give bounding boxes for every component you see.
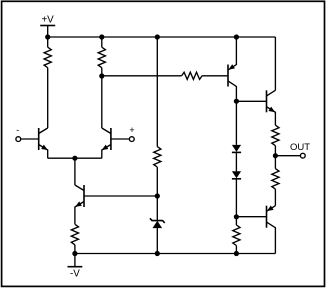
node Q4 collector [234,99,239,104]
wire node to R5 [102,75,182,77]
diode D1 [232,145,241,153]
resistor R8 [272,169,279,190]
wire OUT node to terminal [275,155,300,157]
wire OUT node to R8 [274,156,276,169]
node bottom rail R7 [234,251,239,256]
transistor Q1 [39,128,48,158]
node top rail at Q4 emitter [234,34,239,39]
node emitter rail [72,156,77,161]
wire R6 to OUT node [274,146,276,156]
-V terminal [68,254,83,267]
diode D2 [232,171,241,179]
wire R4 to zener node [156,167,158,196]
wire rail to Q5 collector [274,37,276,90]
wire node to Q6 base [236,216,266,218]
svg-text:-: - [16,125,19,135]
wire Q4 collector to D1 [235,101,237,145]
wire bottom rail [75,253,276,255]
wire Q3 base to zener node [84,195,157,197]
transistor Q6 [267,206,276,254]
svg-text:+V: +V [41,15,54,26]
node top rail at R4 [155,34,160,39]
node top rail at R1 [45,34,50,39]
wire emitter node to Q3 collector [74,158,76,185]
+V terminal [40,26,55,38]
resistor R3 [71,224,78,245]
node bottom rail zener [155,251,160,256]
wire R3 to -V node [74,245,76,254]
wire node to Q2 collector [101,76,103,128]
svg-text:-V: -V [70,269,80,280]
resistor R7 [233,217,240,254]
resistor R4 [154,147,161,168]
node OUT [273,153,278,158]
transistor Q4 [228,37,236,101]
node diode bottom [234,214,239,219]
terminal + input [129,137,134,142]
wire Q2 base to + input [111,138,129,140]
wire emitter rail [48,157,102,159]
terminal - input [16,137,21,142]
wire D2 to lower node [235,179,237,217]
wire D1 to D2 [235,152,237,171]
node zener top [155,193,160,198]
node bottom rail -V [72,251,77,256]
transistor Q2 [102,128,111,158]
transistor Q5 [267,90,276,125]
resistor R5 [182,72,203,79]
svg-text:+: + [129,125,134,135]
wire R8 to Q6 emitter [274,189,276,206]
node R2 bottom [99,73,104,78]
node top rail at R2 [99,34,104,39]
wire R5 to Q4 base [202,75,228,77]
wire - input to Q1 base [21,138,39,140]
resistor R2 [98,37,105,76]
transistor Q3 [75,185,84,224]
wire R1 to Q1 collector [47,68,49,128]
zener diode Z1 [150,218,165,228]
wire top rail [48,36,276,38]
wire rail to R4 [156,37,158,147]
resistor R6 [272,125,279,146]
wire zener to bottom rail [156,228,158,253]
resistor R1 [44,37,51,68]
terminal OUT [300,153,305,158]
svg-text:OUT: OUT [290,142,310,153]
wire Q4 collector to Q5 base [236,100,266,102]
wire node to zener [156,196,158,221]
